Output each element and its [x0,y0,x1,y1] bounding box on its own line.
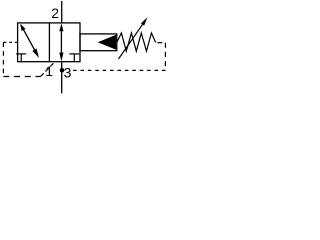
pilot drain line, horizontal from spring (dashed) [157,42,165,44]
valve body envelope [18,23,80,62]
blocked port symbol (left position) [16,54,26,62]
pilot drain line, bottom run to port 3 node (dashed) [73,69,165,71]
svg-text:2: 2 [51,5,59,21]
blocked port symbol (right position) [69,54,79,62]
junction node on port 3 [60,68,65,73]
pilot line from port 1, diagonal run to valve (dashed) [41,62,55,77]
flow-path vertical arrow (right position) [59,23,63,61]
spring adjustment arrow [119,17,148,59]
svg-text:3: 3 [64,65,72,81]
pilot line from port 1, vertical run (dashed) [2,42,4,76]
adjustable spring [117,33,156,51]
pilot actuator box (right) [80,34,117,51]
port 2 line (top) [61,1,63,23]
pilot line from port 1, horizontal run to left side (dashed) [3,41,17,43]
pilot drain line, vertical run at right (dashed) [164,43,166,71]
pilot line from port 1, bottom horizontal run (dashed) [3,76,40,78]
envelope divider between positions [48,23,50,62]
flow-path diagonal arrow (left position) [20,24,39,58]
port 3 line (bottom) [61,62,63,94]
hydraulic pilot triangle [98,35,117,50]
